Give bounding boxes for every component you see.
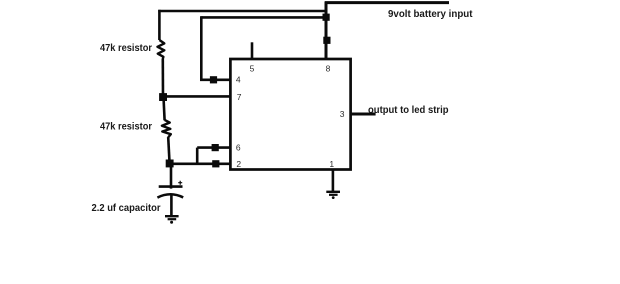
svg-text:5: 5: [250, 64, 255, 74]
capacitor C1 top plate: [159, 185, 183, 188]
wire to pin 7: [162, 95, 230, 98]
resistor R2 47k: [162, 120, 171, 137]
svg-text:2: 2: [236, 159, 241, 169]
wire to pin 4: [200, 79, 230, 82]
wire pin 1 to ground: [332, 170, 335, 192]
junction square on pin 8 rail: [323, 37, 330, 44]
junction square on pin 4 wire: [210, 76, 217, 83]
wire R2 to junction: [168, 137, 169, 164]
wire inner loop vertical: [200, 16, 203, 80]
wire left rail top: [158, 10, 161, 40]
svg-text:4: 4: [236, 74, 241, 84]
junction square rail / capacitor: [166, 160, 174, 168]
junction square on pin 2 wire: [212, 160, 219, 167]
svg-text:2.2 uf capacitor: 2.2 uf capacitor: [92, 202, 161, 214]
wire capacitor to ground: [170, 195, 173, 216]
svg-text:47k resistor: 47k resistor: [100, 121, 152, 133]
svg-text:7: 7: [237, 92, 242, 102]
capacitor C1 curved plate: [157, 194, 183, 197]
wire right vertical rail to pin 8: [325, 2, 328, 60]
junction square rail / pin 7 wire: [159, 93, 167, 101]
wire to pin 6: [197, 146, 230, 149]
wire to pin 2: [170, 163, 230, 166]
junction square top right rail: [323, 14, 330, 21]
pin 5 stub: [251, 42, 254, 59]
svg-text:3: 3: [340, 109, 345, 119]
wire R1 to junction: [162, 59, 165, 97]
wire top-left horizontal rail: [158, 10, 327, 13]
wire pin 3 output: [351, 113, 376, 116]
wire inner loop horizontal top: [201, 16, 326, 19]
svg-text:1: 1: [329, 159, 334, 169]
wire junction to R2: [164, 97, 165, 120]
ground symbol below capacitor: [165, 216, 179, 224]
junction square on pin 6 wire: [212, 144, 219, 151]
wire battery top horizontal: [325, 1, 449, 4]
svg-text:6: 6: [236, 143, 241, 153]
IC U1 555 timer body: [230, 59, 350, 170]
capacitor plus sign: [178, 181, 182, 185]
ground symbol pin 1: [326, 192, 340, 199]
svg-text:output to led strip: output to led strip: [368, 104, 449, 116]
wire junction to capacitor: [170, 164, 173, 189]
svg-text:47k resistor: 47k resistor: [100, 42, 152, 54]
wire pin6 branch vertical: [196, 148, 199, 164]
resistor R1 47k: [158, 40, 165, 59]
svg-text:8: 8: [326, 64, 331, 74]
svg-text:9volt battery input: 9volt battery input: [388, 8, 473, 20]
